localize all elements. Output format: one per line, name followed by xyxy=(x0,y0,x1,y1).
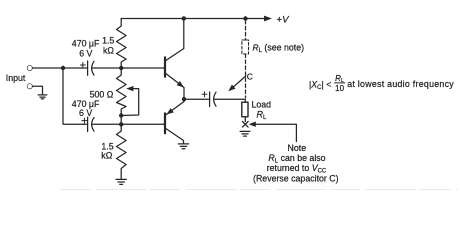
ground R3 xyxy=(116,179,126,184)
capacitor C1 470uF xyxy=(88,61,94,75)
ground load xyxy=(240,131,250,136)
wire input lower terminal to ground xyxy=(32,86,42,94)
fraction bar xyxy=(335,82,345,84)
potentiometer R2 wiper arrow xyxy=(126,86,133,91)
resistor R3 1.5k bottom xyxy=(117,124,127,179)
svg-text:(Reverse capacitor C): (Reverse capacitor C) xyxy=(253,173,339,183)
input terminal top xyxy=(28,66,33,71)
node input split xyxy=(61,66,65,70)
transistor Q2 collector xyxy=(166,129,184,144)
wire wiper return xyxy=(121,89,139,116)
wire note arrow to X xyxy=(255,124,297,141)
svg-text:+V: +V xyxy=(277,15,291,26)
wire C2 to Q2 base xyxy=(93,123,164,125)
note text block xyxy=(253,143,339,184)
resistor R1 1.5k top xyxy=(117,19,127,69)
+V supply arrow xyxy=(264,16,272,22)
wire C3 to load xyxy=(215,99,246,102)
potentiometer R2 500 ohm xyxy=(117,68,127,116)
node pot bottom xyxy=(119,113,123,117)
node output (emitter junction) xyxy=(182,97,186,101)
wire input to C1 xyxy=(32,67,87,69)
wire pot bottom to lower base xyxy=(120,116,122,125)
transistor Q1 collector xyxy=(166,19,184,61)
arrow C to capacitor head xyxy=(228,85,235,92)
svg-text:C: C xyxy=(247,72,253,82)
wire output node to C3 xyxy=(184,98,210,100)
capacitor C3 xyxy=(210,92,216,107)
node base divider lower xyxy=(119,122,123,126)
resistor RL optional (dashed) xyxy=(242,40,249,54)
wire dashed down to output xyxy=(245,54,247,98)
svg-text:RL (see note): RL (see note) xyxy=(253,42,305,54)
svg-text:Input: Input xyxy=(6,73,26,83)
svg-text:RL: RL xyxy=(257,109,268,121)
svg-text:10: 10 xyxy=(335,84,344,93)
wire C1 to Q1 base xyxy=(93,67,164,69)
wire top supply rail xyxy=(121,18,264,20)
capacitor C1 470uF plus sign xyxy=(80,63,85,68)
node base divider upper xyxy=(119,66,123,70)
ground Q2 collector xyxy=(178,144,188,149)
svg-text:Load: Load xyxy=(252,100,272,110)
resistor RL load box xyxy=(242,102,248,117)
svg-text:470 μF: 470 μF xyxy=(72,39,100,49)
wire arrow C to capacitor xyxy=(231,76,246,89)
node rail-collector junction xyxy=(182,16,186,20)
input terminal bottom xyxy=(28,84,33,89)
wire load box to X xyxy=(244,117,246,122)
svg-text:kΩ: kΩ xyxy=(103,45,114,55)
wire input branch down xyxy=(63,68,88,124)
svg-text:6 V: 6 V xyxy=(79,48,92,58)
capacitor C3 plus sign xyxy=(202,92,207,97)
scan artifact bottom streak xyxy=(60,189,458,191)
arrow note to X xyxy=(249,122,256,127)
svg-text:kΩ: kΩ xyxy=(101,151,112,161)
transistor Q1 emitter arrow xyxy=(177,81,184,88)
transistor Q2 emitter xyxy=(166,99,184,114)
node X return point xyxy=(243,122,249,128)
svg-text:at lowest audio frequency: at lowest audio frequency xyxy=(347,79,454,89)
svg-text:1.5: 1.5 xyxy=(102,35,114,45)
capacitor C2 470uF plus sign xyxy=(82,118,87,123)
transistor Q2 PNP base bar xyxy=(164,113,166,133)
capacitor C2 470uF xyxy=(88,117,94,131)
svg-text:Note: Note xyxy=(288,143,307,153)
transistor Q1 emitter xyxy=(166,74,184,100)
svg-text:6 V: 6 V xyxy=(79,108,92,118)
node rail-dashed-RL junction xyxy=(243,16,247,20)
transistor Q1 NPN base bar xyxy=(164,57,166,76)
transistor Q2 emitter arrow xyxy=(166,108,173,114)
svg-text:|XC| <: |XC| < xyxy=(309,79,331,91)
ground input xyxy=(38,95,47,99)
wire dashed RL pull-up branch xyxy=(245,21,247,41)
formula |Xc| < RL/10 at lowest audio frequency xyxy=(309,74,454,93)
